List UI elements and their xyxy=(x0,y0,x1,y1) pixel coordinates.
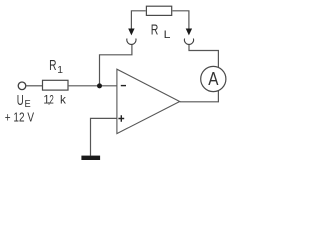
svg-text:k: k xyxy=(60,94,66,107)
svg-text:E: E xyxy=(25,99,32,110)
svg-text:R: R xyxy=(49,57,57,74)
svg-text:A: A xyxy=(208,69,219,89)
svg-text:2: 2 xyxy=(49,94,53,107)
svg-text:R: R xyxy=(151,22,159,39)
svg-text:U: U xyxy=(17,92,24,109)
svg-text:+ 12 V: + 12 V xyxy=(5,110,35,125)
svg-text:1: 1 xyxy=(57,65,63,76)
svg-text:L: L xyxy=(164,29,171,41)
